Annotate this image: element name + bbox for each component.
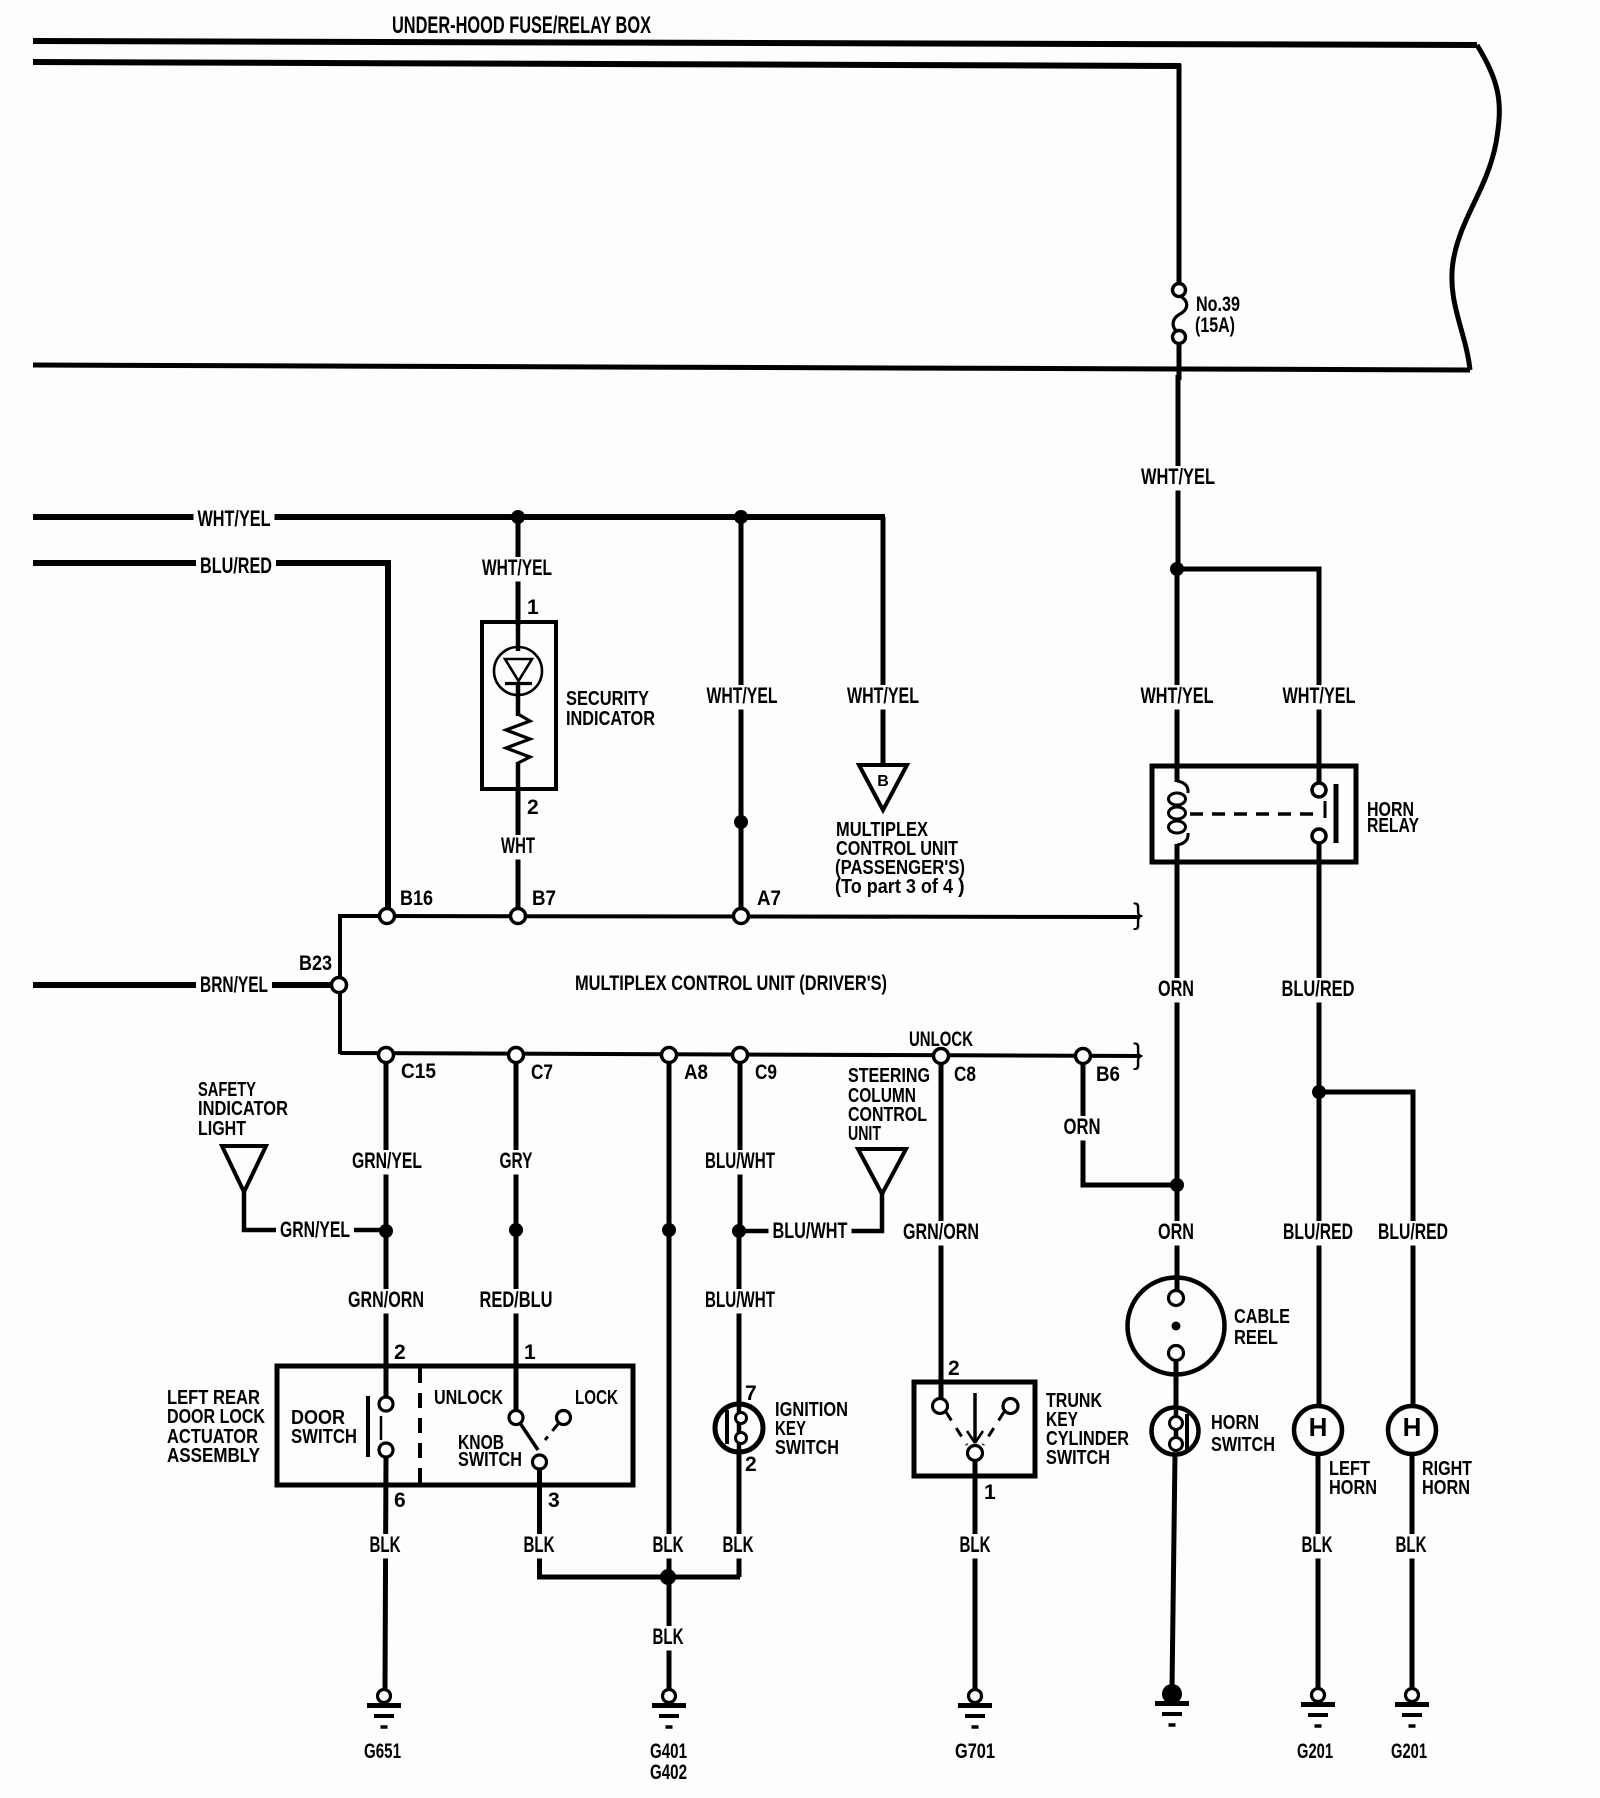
wire RED/BLU from junction to knob switch pin 1 — [476, 1230, 557, 1413]
horn relay label — [1367, 799, 1420, 837]
svg-text:BLK: BLK — [1302, 1532, 1333, 1557]
wire WHT/YEL from rail to A7 — [703, 517, 782, 909]
wire ORN from B6 to ORN main wire — [1060, 1064, 1178, 1185]
pin 2 of door switch — [394, 1341, 406, 1364]
svg-text:ORN: ORN — [1158, 976, 1194, 1001]
terminal A8 — [662, 1048, 709, 1085]
wire WHT/YEL branch to horn relay contact — [1177, 569, 1360, 766]
svg-text:C7: C7 — [531, 1061, 553, 1084]
svg-text:GRN/ORN: GRN/ORN — [348, 1287, 424, 1312]
svg-text:G201: G201 — [1297, 1740, 1333, 1763]
svg-text:WHT/YEL: WHT/YEL — [847, 683, 919, 708]
pin 1 of security indicator — [527, 596, 539, 619]
under-hood fuse/relay box title label — [392, 12, 651, 39]
svg-text:BRN/YEL: BRN/YEL — [200, 972, 268, 997]
svg-text:2: 2 — [394, 1341, 406, 1364]
svg-text:No.39: No.39 — [1196, 293, 1240, 316]
junction on A8 wire mid — [662, 1223, 676, 1237]
svg-text:SWITCH: SWITCH — [1211, 1434, 1275, 1456]
svg-text:BLU/RED: BLU/RED — [1282, 976, 1355, 1001]
cable reel — [1128, 1278, 1225, 1409]
pin 1 of knob switch — [524, 1341, 536, 1364]
svg-text:GRY: GRY — [500, 1148, 533, 1173]
trunk key cylinder switch label — [1046, 1390, 1129, 1469]
svg-text:(15A): (15A) — [1195, 314, 1235, 337]
terminal B6 — [1076, 1049, 1121, 1087]
svg-text:WHT/YEL: WHT/YEL — [1141, 464, 1215, 489]
right horn label — [1422, 1458, 1472, 1499]
wire from horn switch to ground — [1172, 1454, 1175, 1689]
svg-text:2: 2 — [948, 1357, 960, 1380]
safety indicator light connector arrow — [222, 1146, 266, 1192]
ground G201 left — [1297, 1689, 1335, 1764]
left horn label — [1329, 1458, 1377, 1499]
brace at right end of multiplex bottom edge — [1133, 1038, 1143, 1071]
svg-text:WHT/YEL: WHT/YEL — [1283, 683, 1356, 708]
horn relay contact points — [1312, 766, 1336, 862]
ground G651 — [364, 1690, 401, 1764]
svg-text:H: H — [1309, 1412, 1328, 1442]
terminal B7 — [511, 887, 557, 924]
svg-text:MULTIPLEX CONTROL UNIT (DRIVER: MULTIPLEX CONTROL UNIT (DRIVER'S) — [575, 972, 887, 995]
wire BLU/WHT from steering column control unit to C9 wire — [739, 1194, 882, 1245]
UNLOCK label above terminal C8 — [909, 1028, 973, 1051]
junction on WHT/YEL rail at A7 branch — [734, 510, 748, 524]
ground G201 right — [1391, 1689, 1429, 1764]
horn switch — [1152, 1408, 1199, 1455]
svg-text:C15: C15 — [401, 1060, 436, 1083]
svg-text:BLK: BLK — [723, 1532, 754, 1557]
svg-text:7: 7 — [745, 1382, 757, 1405]
svg-text:SWITCH: SWITCH — [458, 1449, 522, 1471]
svg-text:3: 3 — [548, 1489, 560, 1512]
terminal B16 — [380, 887, 434, 924]
junction on C15 wire at safety light tap — [379, 1224, 393, 1238]
svg-text:REEL: REEL — [1234, 1327, 1278, 1349]
svg-text:GRN/ORN: GRN/ORN — [903, 1219, 979, 1244]
multiplex control unit driver's box bottom edge — [340, 1053, 1140, 1056]
svg-text:CABLE: CABLE — [1234, 1306, 1290, 1328]
wire from door switch pin 6 to ground — [366, 1457, 405, 1689]
svg-text:UNLOCK: UNLOCK — [434, 1387, 503, 1409]
svg-text:G201: G201 — [1391, 1740, 1427, 1763]
wire BLU/WHT from C9 down — [701, 1063, 779, 1232]
terminal C15 — [379, 1048, 437, 1084]
left rear door lock actuator assembly label — [167, 1387, 265, 1467]
wire ORN from horn relay to cable reel — [1154, 862, 1198, 1291]
wire GRN/ORN from C8 to trunk key cylinder switch pin 2 — [899, 1064, 983, 1400]
ignition key switch label — [775, 1399, 848, 1459]
svg-text:STEERING: STEERING — [848, 1065, 930, 1087]
svg-text:2: 2 — [745, 1453, 757, 1476]
svg-text:INDICATOR: INDICATOR — [566, 708, 655, 730]
svg-text:SWITCH: SWITCH — [291, 1426, 357, 1448]
pin 2 of trunk key cylinder switch — [948, 1357, 960, 1380]
brace at right end of multiplex top edge — [1133, 898, 1143, 931]
wire from knob switch pin 3 to BLK bus — [520, 1469, 741, 1577]
ground at horn switch — [1155, 1684, 1189, 1725]
svg-text:6: 6 — [394, 1489, 406, 1512]
unlock position label of knob switch — [434, 1387, 503, 1409]
horn switch label — [1211, 1412, 1275, 1456]
svg-text:B: B — [877, 773, 889, 790]
svg-text:A7: A7 — [757, 887, 781, 910]
door switch label — [291, 1407, 357, 1448]
wire BLK from right horn to ground — [1392, 1454, 1431, 1690]
svg-text:SWITCH: SWITCH — [775, 1437, 839, 1459]
pin 2 of ignition key switch — [745, 1453, 757, 1476]
terminal C8 — [934, 1049, 977, 1087]
wire from fuse box bus down to fuse No.39 — [1177, 64, 1182, 285]
svg-text:BLU/RED: BLU/RED — [200, 553, 272, 578]
pin 2 of security indicator — [527, 796, 539, 819]
svg-text:BLK: BLK — [960, 1532, 991, 1557]
under-hood fuse/relay box inner bus line — [33, 62, 1181, 66]
svg-text:B7: B7 — [532, 887, 556, 910]
wire BLU/WHT from junction to ignition key switch pin 7 — [701, 1231, 779, 1407]
svg-text:LOCK: LOCK — [575, 1387, 618, 1409]
steering column control unit connector arrow — [858, 1149, 906, 1194]
svg-text:1: 1 — [524, 1341, 536, 1364]
svg-text:(To part 3 of 4: (To part 3 of 4 — [835, 876, 954, 898]
svg-text:BLK: BLK — [653, 1532, 684, 1557]
svg-text:G701: G701 — [955, 1740, 995, 1763]
door switch — [368, 1396, 393, 1457]
svg-text:DOOR LOCK: DOOR LOCK — [167, 1406, 265, 1428]
svg-text:BLU/RED: BLU/RED — [1283, 1219, 1353, 1244]
multiplex control unit passenger's label — [835, 819, 965, 898]
left horn — [1294, 1406, 1342, 1454]
svg-text:H: H — [1403, 1412, 1422, 1442]
svg-text:WHT/YEL: WHT/YEL — [482, 555, 552, 580]
door lock actuator dashed divider — [418, 1368, 422, 1483]
svg-text:ASSEMBLY: ASSEMBLY — [167, 1445, 261, 1467]
lock position label of knob switch — [575, 1387, 618, 1409]
svg-text:LIGHT: LIGHT — [198, 1118, 246, 1140]
svg-text:UNDER-HOOD FUSE/RELAY BOX: UNDER-HOOD FUSE/RELAY BOX — [392, 12, 651, 39]
under-hood fuse/relay box bottom border line — [33, 365, 1470, 370]
under-hood fuse/relay box top border line — [33, 41, 1477, 45]
svg-text:C8: C8 — [954, 1063, 976, 1086]
connector arrow B to multiplex control unit passenger's — [859, 765, 907, 810]
svg-text:BLK: BLK — [524, 1532, 555, 1557]
svg-text:HORN: HORN — [1329, 1477, 1377, 1499]
under-hood fuse/relay box torn right edge — [1452, 45, 1499, 370]
wire BLU/RED rail from left edge to B16 — [33, 553, 388, 909]
terminal B23 — [299, 952, 347, 993]
svg-text:A8: A8 — [684, 1061, 708, 1084]
svg-text:BLU/WHT: BLU/WHT — [705, 1287, 775, 1312]
wire WHT from security indicator to B7 — [497, 789, 539, 909]
wire BLU/RED from horn relay to left horn — [1278, 862, 1359, 1406]
svg-text:GRN/YEL: GRN/YEL — [280, 1217, 350, 1242]
security indicator resistor — [506, 714, 530, 763]
svg-text:}: } — [1133, 898, 1143, 931]
svg-text:}: } — [1133, 1038, 1143, 1071]
wire BRN/YEL rail from left edge to B23 — [33, 972, 332, 999]
trunk key cylinder switch box — [914, 1382, 1035, 1476]
fuse No.39 (15A) — [1173, 284, 1241, 344]
wire BLK from trunk key cylinder switch to ground G701 — [956, 1460, 995, 1690]
wire GRN/YEL from safety indicator light to C15 wire — [244, 1190, 386, 1244]
knob switch label — [458, 1432, 522, 1471]
wire WHT/YEL rail from left edge — [33, 506, 885, 533]
svg-text:SWITCH: SWITCH — [1046, 1447, 1110, 1469]
security indicator box — [482, 622, 556, 789]
trunk key cylinder switch — [933, 1393, 1019, 1461]
wire GRN/YEL from C15 down — [348, 1063, 426, 1232]
svg-text:WHT/YEL: WHT/YEL — [707, 683, 778, 708]
steering column control unit label — [848, 1065, 930, 1145]
svg-text:B16: B16 — [400, 887, 433, 910]
horn relay box — [1152, 766, 1356, 862]
junction on C9 wire at steering column tap — [732, 1224, 746, 1238]
svg-text:G402: G402 — [650, 1761, 687, 1784]
junction of B6 branch on ORN main wire — [1170, 1178, 1184, 1192]
svg-text:): ) — [958, 876, 965, 898]
svg-text:B23: B23 — [299, 952, 332, 975]
svg-text:G651: G651 — [364, 1740, 401, 1763]
svg-text:UNIT: UNIT — [848, 1123, 881, 1145]
wire BLK from junction to ground G401/G402 — [649, 1577, 688, 1690]
svg-text:2: 2 — [527, 796, 539, 819]
svg-text:WHT/YEL: WHT/YEL — [198, 506, 271, 531]
terminal C7 — [509, 1048, 554, 1085]
ignition key switch — [715, 1404, 763, 1452]
wire WHT/YEL from fuse down to junction — [1137, 343, 1219, 569]
svg-text:G401: G401 — [650, 1740, 687, 1763]
wire WHT/YEL from junction to horn relay coil — [1137, 569, 1218, 766]
junction on C7 wire — [509, 1223, 523, 1237]
wire from resistor to security indicator pin 2 — [516, 762, 521, 789]
multiplex control unit driver's box left edge — [338, 914, 342, 1054]
ground G401 G402 — [650, 1690, 687, 1785]
svg-text:BLU/WHT: BLU/WHT — [773, 1218, 848, 1243]
pin 7 of ignition key switch — [745, 1382, 757, 1405]
left rear door lock actuator assembly box — [277, 1366, 633, 1485]
svg-text:RED/BLU: RED/BLU — [480, 1287, 553, 1312]
svg-text:ORN: ORN — [1158, 1219, 1194, 1244]
cable reel label — [1234, 1306, 1290, 1349]
right horn — [1388, 1406, 1436, 1454]
svg-text:BLK: BLK — [1396, 1532, 1427, 1557]
svg-text:1: 1 — [984, 1481, 996, 1504]
wire BLK from left horn to ground — [1298, 1454, 1337, 1689]
svg-text:INDICATOR: INDICATOR — [198, 1098, 288, 1120]
junction on WHT/YEL rail at security indicator branch — [511, 510, 525, 524]
svg-text:HORN: HORN — [1211, 1412, 1259, 1434]
svg-text:BLU/RED: BLU/RED — [1378, 1219, 1448, 1244]
wire GRY from C7 down — [496, 1063, 537, 1232]
terminal A7 — [734, 887, 782, 924]
pin 3 of knob switch — [548, 1489, 560, 1512]
wire from A8 down to BLK junction — [649, 1063, 688, 1577]
wire BLK from ignition key switch to BLK junction — [719, 1452, 758, 1577]
svg-text:SECURITY: SECURITY — [566, 688, 650, 710]
junction of BLK bus on A8 wire — [660, 1569, 676, 1585]
horn relay coil — [1169, 766, 1189, 862]
svg-text:RELAY: RELAY — [1367, 815, 1420, 837]
knob switch — [509, 1411, 571, 1470]
ground G701 — [955, 1690, 995, 1764]
pin 1 of trunk key cylinder switch — [984, 1481, 996, 1504]
svg-text:B6: B6 — [1096, 1063, 1120, 1086]
multiplex control unit driver's box top edge — [340, 916, 1140, 917]
wire WHT/YEL from rail corner down to passenger multiplex arrow — [843, 517, 923, 765]
pin 6 of door switch — [394, 1489, 406, 1512]
svg-text:BLK: BLK — [370, 1532, 401, 1557]
junction on BLU/RED wire at right horn branch — [1312, 1085, 1326, 1099]
multiplex control unit driver's label — [575, 972, 887, 995]
svg-text:WHT: WHT — [501, 833, 535, 858]
svg-text:GRN/YEL: GRN/YEL — [352, 1148, 422, 1173]
svg-text:BLK: BLK — [653, 1624, 684, 1649]
junction on WHT/YEL wire at horn relay branch — [1170, 562, 1184, 576]
safety indicator light label — [198, 1079, 288, 1140]
terminal C9 — [733, 1048, 778, 1085]
svg-text:ORN: ORN — [1064, 1114, 1101, 1139]
wire BLU/RED branch to right horn — [1319, 1092, 1452, 1406]
svg-text:BLU/WHT: BLU/WHT — [705, 1148, 775, 1173]
security indicator label — [566, 688, 655, 730]
wire GRN/ORN from junction to door switch pin 2 — [344, 1231, 428, 1399]
svg-text:WHT/YEL: WHT/YEL — [1141, 683, 1214, 708]
wire WHT/YEL from rail to security indicator pin 1 — [478, 517, 556, 625]
junction on A7 wire — [734, 815, 748, 829]
horn relay armature dashed link — [1190, 801, 1325, 818]
security indicator LED — [494, 622, 542, 716]
svg-text:C9: C9 — [755, 1061, 777, 1084]
svg-text:1: 1 — [527, 596, 539, 619]
svg-text:HORN: HORN — [1422, 1477, 1470, 1499]
